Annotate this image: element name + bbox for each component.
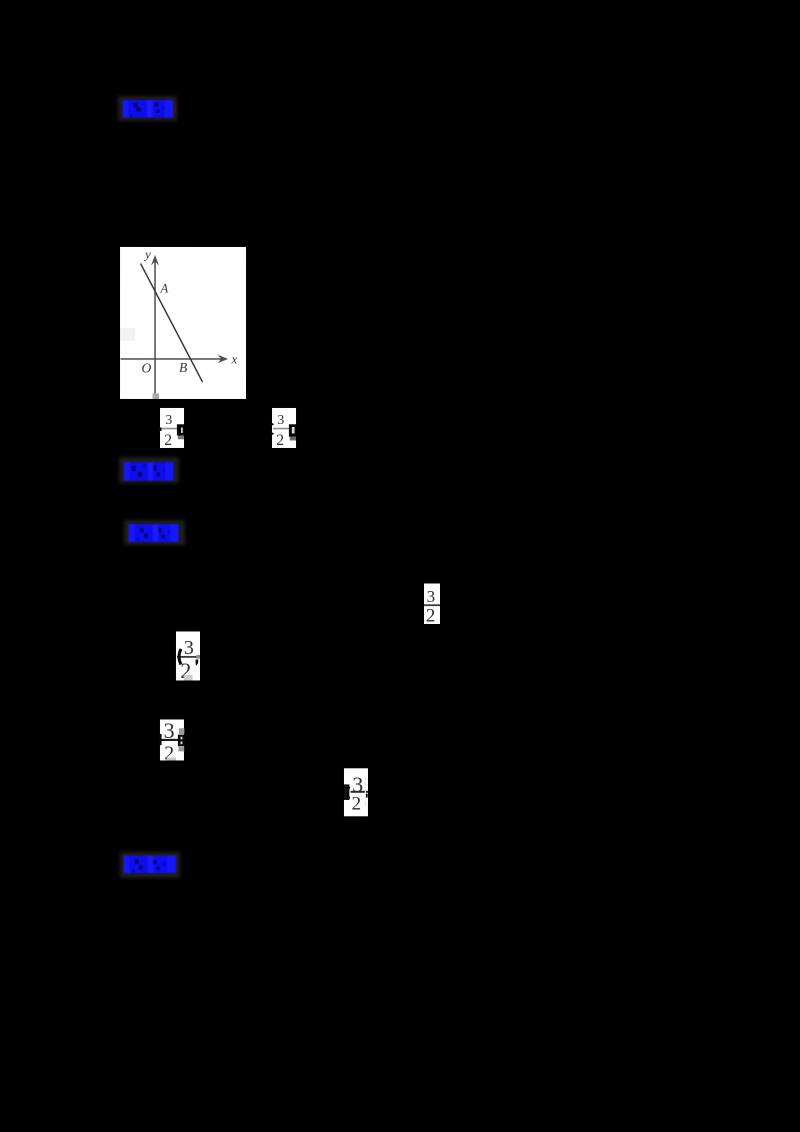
svg-text:O: O [142,360,152,375]
svg-text:2: 2 [164,432,172,449]
svg-text:3: 3 [165,413,172,428]
jpeg artifact dash right of L1 [174,104,176,112]
line AB [141,263,203,382]
figure: coordinate graph image [120,247,246,399]
fraction F1 (3/2) [157,408,187,449]
fraction F5 (=3/2=) [159,719,185,761]
svg-text:2: 2 [276,432,284,449]
svg-text:3: 3 [184,637,194,659]
fraction F3 (3/2) [424,583,442,625]
label L3 blue text blob [128,523,182,544]
label L4 halo [120,852,180,878]
svg-text:y: y [143,247,151,262]
faint artifact band [120,328,135,341]
fraction F4 ( (3/2, ) [176,631,202,681]
label L2 blue text blob [123,461,177,482]
svg-text:2: 2 [352,793,362,814]
svg-text:3: 3 [427,587,436,606]
fraction F6 ( (3/2, ) [344,768,370,817]
label L1 halo [118,96,177,121]
svg-text:2: 2 [426,606,436,625]
x-axis [121,358,222,360]
svg-text:x: x [231,351,238,366]
fraction F2 (3/2) [269,408,299,449]
svg-text:A: A [160,281,169,295]
label L2 halo [119,457,179,483]
label L1 blue text blob [122,99,176,119]
label L4 blue text blob [123,855,177,875]
svg-text:3: 3 [277,413,284,428]
label L3 halo [124,520,185,545]
y-axis [154,259,156,394]
svg-text:B: B [179,360,187,375]
gray handle square [153,393,160,399]
